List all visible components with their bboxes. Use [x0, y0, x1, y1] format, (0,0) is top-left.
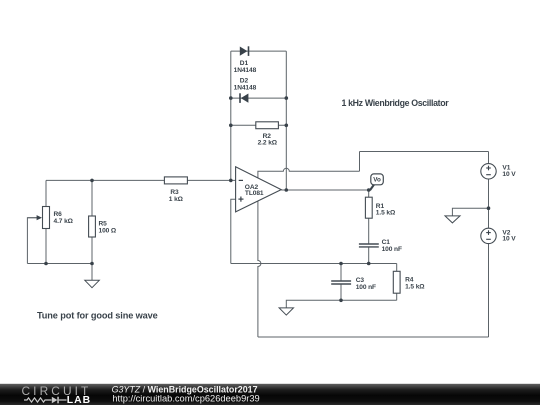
svg-text:LAB: LAB	[67, 395, 91, 405]
node C1 bottom	[367, 262, 371, 266]
svg-text:100 nF: 100 nF	[356, 284, 376, 291]
ground near V1/V2	[445, 216, 460, 223]
svg-text:100 Ω: 100 Ω	[99, 227, 117, 234]
node R2 right	[285, 124, 289, 128]
wire: op-amp plus input down-leg	[231, 199, 236, 263]
resistor R2	[256, 122, 279, 129]
node Vo junction	[367, 188, 371, 192]
wire: V1 top lead	[488, 152, 490, 164]
wire: R1 to C1	[368, 218, 370, 244]
resistor R1	[365, 197, 372, 218]
svg-text:1.5 kΩ: 1.5 kΩ	[376, 209, 396, 216]
wire: Wien tap rail y=263.5 to R4	[231, 263, 397, 265]
node Vo flag	[369, 174, 383, 191]
wire: bottom rail of tune network y=263.5	[27, 263, 92, 265]
node D2 right	[285, 96, 289, 100]
wire: op-amp V+ pin up and right with hop over x=286	[258, 168, 360, 178]
svg-text:1 kΩ: 1 kΩ	[169, 196, 184, 203]
wire: right vertical bus x=286 (D1/D2/R2 right to op-amp output)	[285, 51, 287, 190]
resistor R3	[164, 177, 187, 184]
wire: D1 top branch y=51	[231, 50, 286, 52]
svg-text:4.7 kΩ: 4.7 kΩ	[54, 218, 74, 225]
op-amp OA2	[236, 167, 282, 212]
node R5 top	[90, 179, 94, 183]
node C3 top	[339, 262, 343, 266]
wire: minus-input horizontal rail y=180.4 from R6 top to op-amp	[46, 179, 236, 181]
wire: C3 bottom lead	[340, 284, 342, 300]
wire: R4 bottom lead	[396, 293, 398, 300]
wire: V2 bottom down to bottom rail	[488, 244, 490, 337]
ground bottom center	[279, 308, 293, 315]
wire: top rail y=151.5 to V1	[360, 151, 489, 153]
wire: C3 top lead	[340, 264, 342, 282]
wire: lower ground rail y=299.8	[286, 300, 396, 308]
wire: op-amp V- pin down-leg with hop over y=263.5	[258, 201, 261, 337]
wire: V1 bottom to V2 top	[488, 179, 490, 228]
node R6 bottom	[44, 262, 48, 266]
wire: left vertical bus x=231 (D1/D2/R2 left to op-amp minus)	[230, 51, 232, 180]
wire: D2 branch y=98	[231, 97, 286, 99]
svg-text:1 kHz Wienbridge Oscillator: 1 kHz Wienbridge Oscillator	[342, 98, 450, 108]
svg-text:R4: R4	[405, 276, 414, 283]
svg-text:10 V: 10 V	[502, 236, 516, 243]
svg-text:C3: C3	[356, 277, 365, 284]
wire: R5 vertical leg x=92	[91, 180, 93, 280]
op-amp minus sign	[239, 179, 243, 181]
svg-text:TL081: TL081	[245, 190, 264, 197]
svg-text:http://circuitlab.com/cp626dee: http://circuitlab.com/cp626deeb9r39	[112, 393, 259, 403]
diode D2	[239, 93, 248, 103]
footer bar	[0, 384, 540, 405]
ground under R5	[85, 280, 100, 287]
svg-text:Tune pot for good sine wave: Tune pot for good sine wave	[37, 311, 158, 321]
wire: C1 bottom lead	[368, 247, 370, 264]
node D2 left	[229, 96, 233, 100]
node C3 bottom	[339, 299, 343, 303]
diode D1	[240, 46, 250, 56]
svg-text:R6: R6	[54, 211, 63, 218]
node minus input	[229, 179, 233, 183]
capacitor C3	[331, 281, 351, 284]
svg-text:100 nF: 100 nF	[382, 246, 402, 253]
svg-text:1N4148: 1N4148	[234, 84, 257, 91]
svg-text:Vo: Vo	[373, 177, 381, 184]
potentiometer R6	[27, 207, 49, 229]
wire: ground stub branch y=208	[452, 208, 488, 216]
wire: bottom supply rail y=337	[258, 336, 489, 338]
node output feedback	[285, 188, 289, 192]
svg-text:10 V: 10 V	[502, 171, 516, 178]
wire: R2 branch y=125	[231, 124, 286, 126]
node between V1 V2	[487, 206, 491, 210]
op-amp plus sign	[238, 197, 243, 202]
wire: R4 top lead	[396, 264, 398, 272]
svg-text:D2: D2	[240, 77, 249, 84]
svg-text:1.5 kΩ: 1.5 kΩ	[405, 283, 425, 290]
wire: R1 top lead	[368, 190, 370, 197]
node R2 left	[229, 124, 233, 128]
wire: R6 wiper loop	[27, 218, 38, 264]
resistor R4	[393, 271, 400, 293]
voltage source V2	[481, 228, 496, 243]
svg-text:R5: R5	[99, 220, 108, 227]
wire: R6 vertical leg x=46	[45, 180, 47, 263]
footer logo resistor+diode glyph	[24, 398, 67, 402]
svg-text:2.2 kΩ: 2.2 kΩ	[258, 139, 278, 146]
wire: riser x=359.5 to top rail	[359, 152, 361, 172]
node R5 bottom	[90, 262, 94, 266]
wire: op-amp output y=190	[281, 189, 369, 191]
svg-text:1N4148: 1N4148	[234, 67, 257, 74]
resistor R5	[89, 216, 96, 237]
voltage source V1	[481, 164, 496, 179]
capacitor C1	[359, 244, 379, 247]
